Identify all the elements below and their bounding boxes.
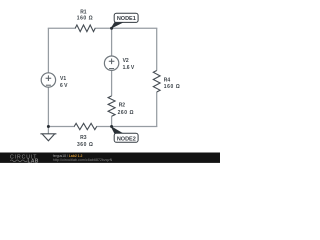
voltage source V1 — [41, 73, 68, 89]
wire right vertical — [156, 28, 158, 126]
watermark bar — [0, 153, 220, 165]
resistor R4 — [153, 71, 180, 93]
resistor R1 — [75, 9, 95, 31]
ground — [40, 134, 56, 141]
svg-text:R2: R2 — [119, 103, 126, 109]
wire left vertical — [47, 28, 49, 126]
svg-text:R4: R4 — [164, 77, 171, 83]
wire ground stub — [47, 127, 49, 134]
wire bottom rail — [48, 126, 156, 128]
voltage source V2 — [104, 56, 135, 71]
svg-text:http://circuitlab.com/c6ab6872: http://circuitlab.com/c6ab6872bzqvN — [53, 158, 113, 162]
svg-text:V2: V2 — [123, 58, 129, 64]
svg-text:V1: V1 — [60, 76, 66, 82]
svg-text:360 Ω: 360 Ω — [77, 142, 94, 148]
resistor R3 — [74, 123, 97, 148]
junction node bottom — [110, 125, 113, 128]
resistor R2 — [108, 96, 134, 116]
svg-text:NODE2: NODE2 — [117, 136, 136, 142]
svg-text:R3: R3 — [80, 135, 87, 141]
node NODE1 flag — [110, 13, 138, 29]
svg-text:160 Ω: 160 Ω — [77, 16, 94, 22]
node NODE2 flag — [110, 126, 138, 143]
svg-text:160 Ω: 160 Ω — [164, 84, 181, 90]
svg-text:260 Ω: 260 Ω — [118, 110, 135, 116]
svg-text:1.6 V: 1.6 V — [123, 65, 135, 71]
wire top rail — [48, 27, 156, 29]
svg-text:LAB: LAB — [28, 158, 39, 164]
svg-text:6 V: 6 V — [60, 83, 68, 89]
svg-text:R1: R1 — [80, 9, 87, 15]
junction node top — [110, 27, 113, 30]
wire middle vertical — [111, 28, 113, 126]
svg-text:NODE1: NODE1 — [117, 16, 136, 22]
junction at V1/ground — [47, 125, 50, 128]
